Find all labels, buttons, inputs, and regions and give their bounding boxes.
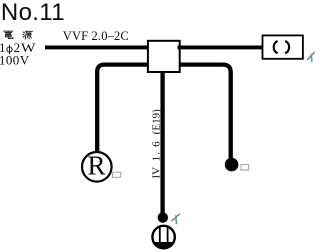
wire power feed xyxy=(45,45,148,49)
switch dot ロ xyxy=(225,158,239,172)
label イ (ceiling rose) xyxy=(308,52,315,61)
svg-text:100V: 100V xyxy=(0,53,30,68)
phi symbol xyxy=(7,45,12,54)
wire right branch xyxy=(180,65,231,159)
wire middle branch xyxy=(160,73,164,214)
lamp receptacle circle xyxy=(82,152,112,182)
svg-text:R: R xyxy=(88,151,106,181)
junction box xyxy=(148,41,180,72)
label ロ (lamp receptacle) xyxy=(112,172,121,177)
svg-text:No.11: No.11 xyxy=(1,0,65,26)
ceiling rose box (square hikkake ceiling) xyxy=(263,35,303,58)
label イ (switch) xyxy=(172,214,180,223)
svg-text:IV1.6(E19): IV1.6(E19) xyxy=(150,109,162,179)
ceiling rose ( ) symbol xyxy=(274,41,289,53)
svg-text:VVF 2.0–2C: VVF 2.0–2C xyxy=(63,29,129,43)
wire box to ceiling rose xyxy=(178,45,263,49)
wall outlet symbol xyxy=(152,226,175,250)
wire left branch xyxy=(97,65,147,152)
switch dot イ xyxy=(158,212,168,222)
label ロ (switch) xyxy=(241,165,249,170)
power source label 電 源 xyxy=(4,31,33,39)
